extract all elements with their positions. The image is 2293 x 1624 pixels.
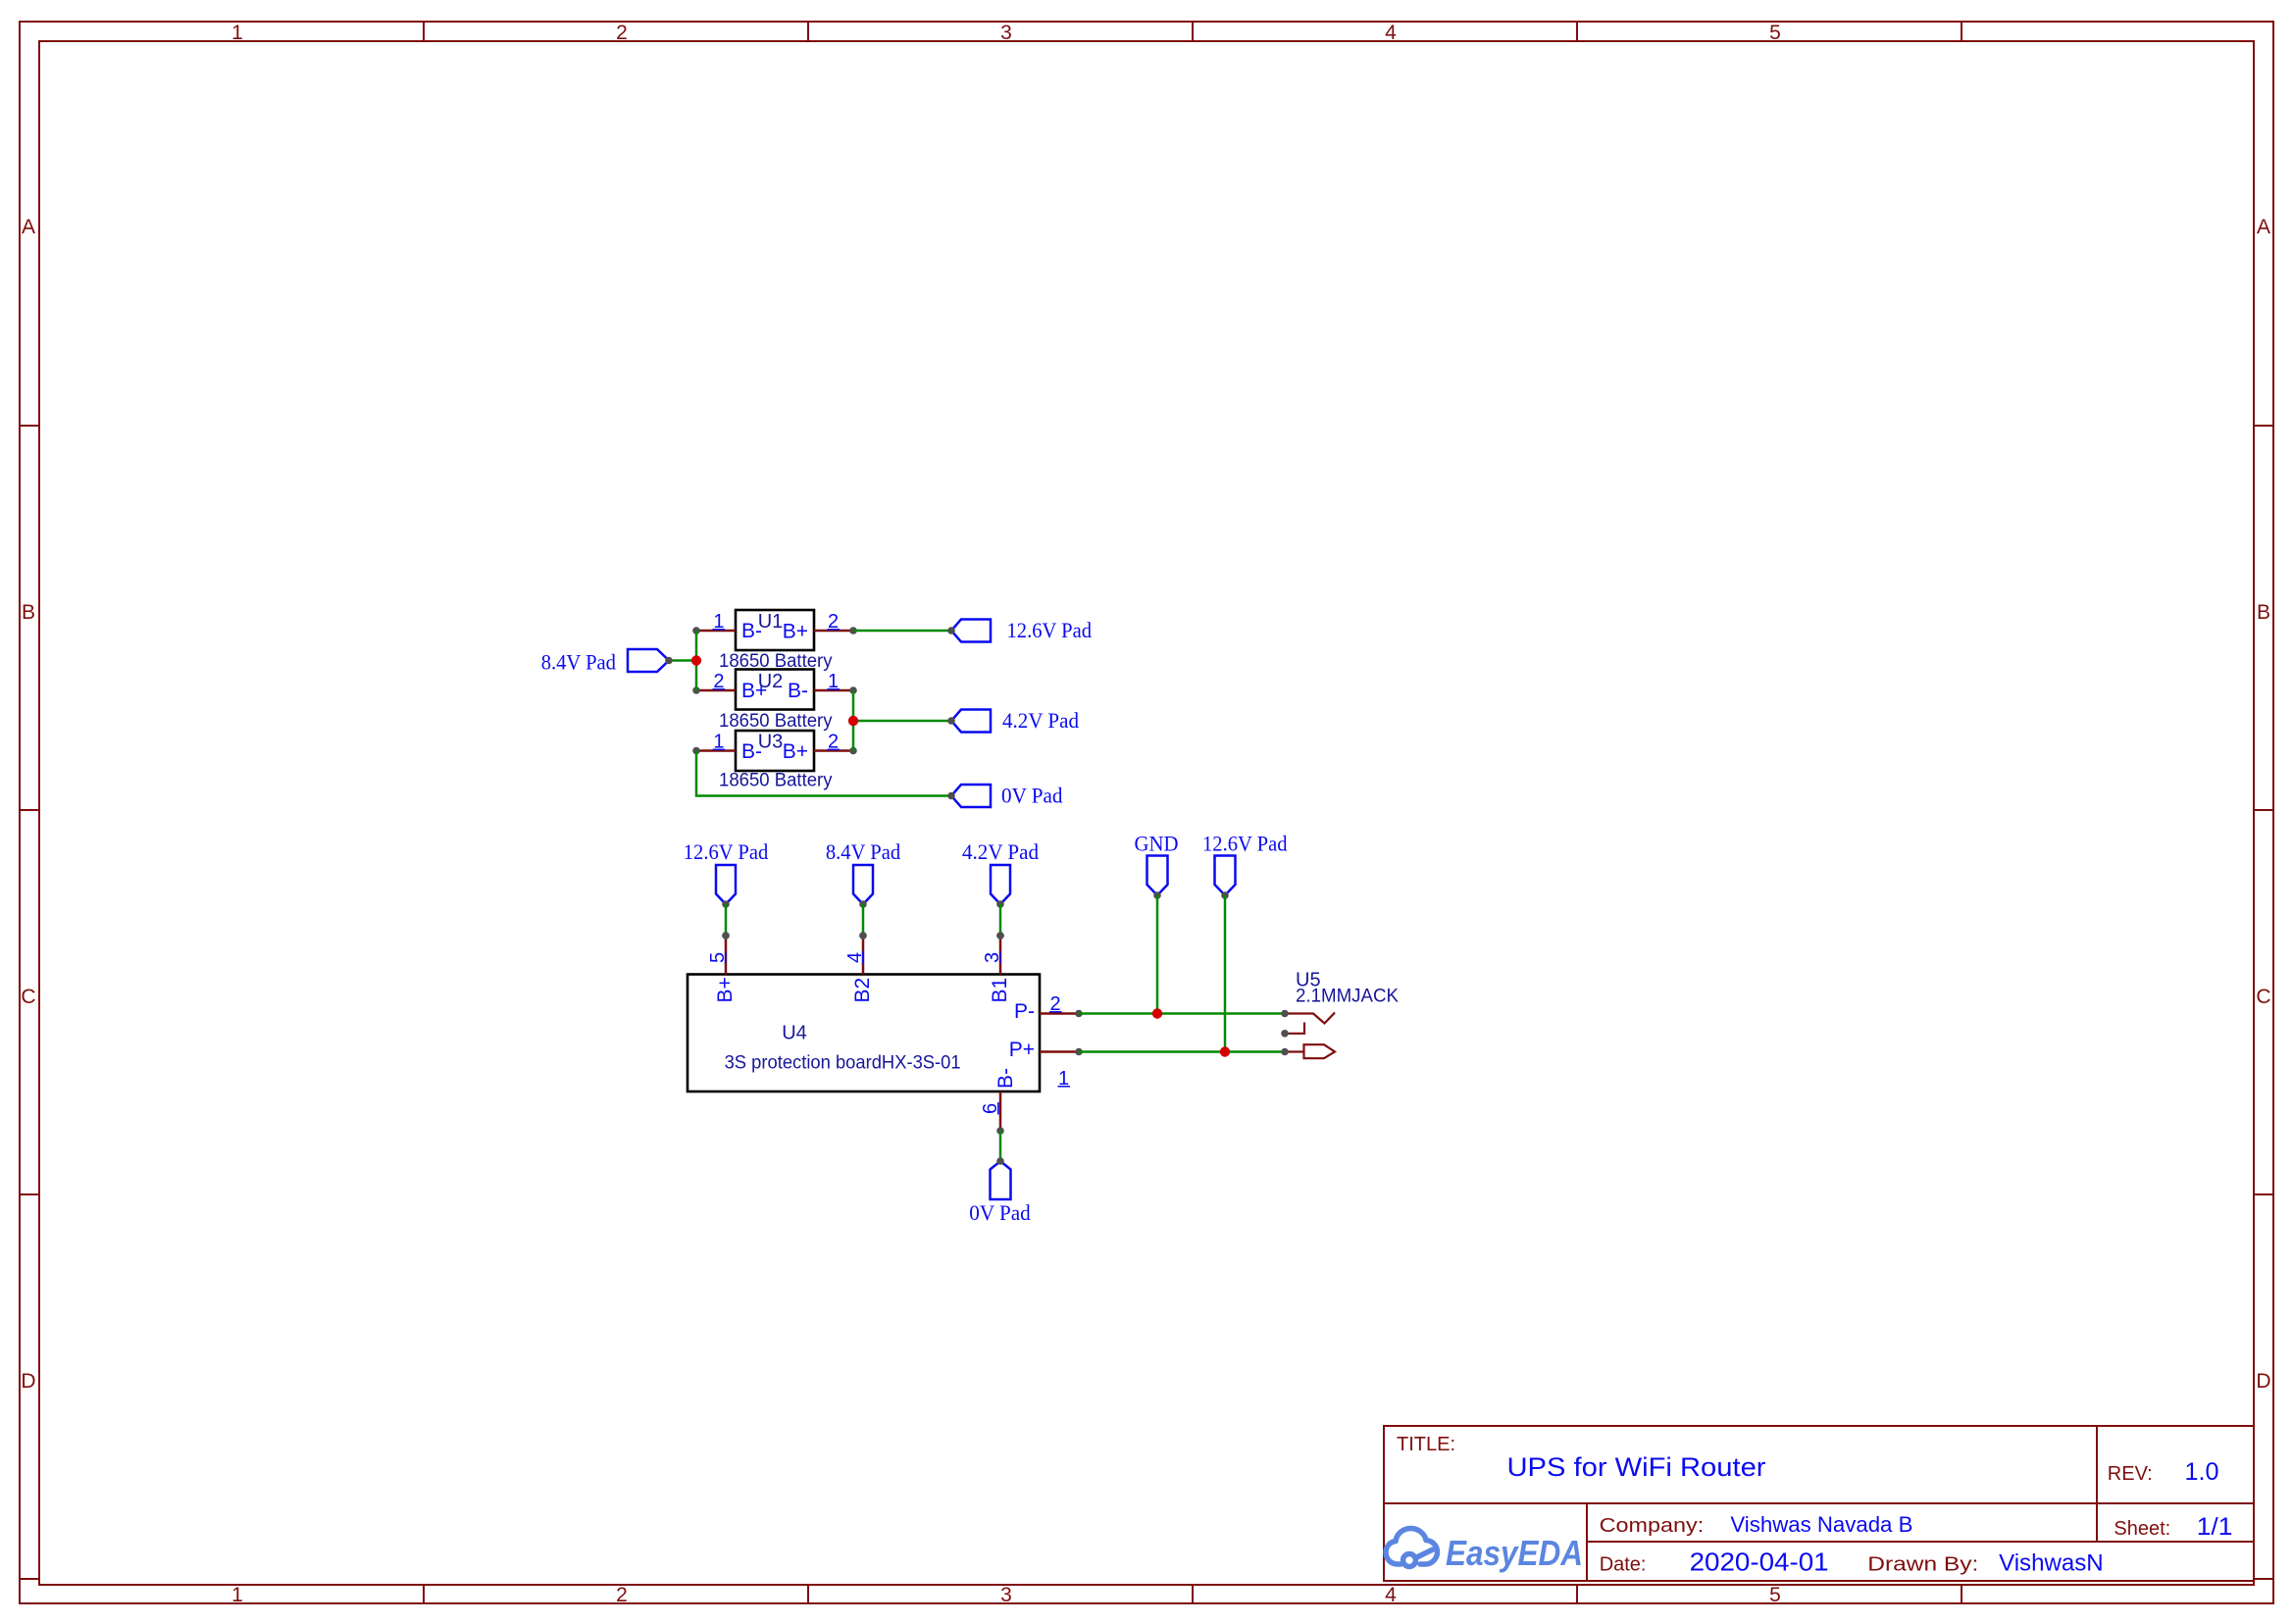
U5 jack switch contact (middle pin) [1285,1023,1304,1034]
U4 pin 4 (B2) [862,936,865,975]
svg-text:B: B [2257,601,2270,624]
frame bottom column tick 2 [807,1585,809,1604]
U4 pin1 terminal dot [1075,1048,1083,1056]
svg-text:2.1MMJACK: 2.1MMJACK [1296,987,1399,1007]
U4 pin 6 (B-) [999,1091,1002,1131]
wire GND flag to P- net [1156,895,1159,1014]
net flag 12.6V Pad right (points down) [1215,856,1236,896]
frame right row tick 3 [2254,1193,2273,1195]
svg-text:REV:: REV: [2108,1463,2153,1485]
U3 pin1 terminal dot [692,747,700,755]
svg-text:B-: B- [741,620,762,642]
U5 jack center pin barrel (pin 1) [1285,1050,1304,1052]
wire 4.2V Pad flag to U4 [999,904,1002,936]
svg-text:Drawn By:: Drawn By: [1867,1554,1978,1576]
net flag 12.6V Pad (points left) [951,620,991,642]
svg-text:B-: B- [994,1068,1017,1089]
U4 pin 1 (P+) [1040,1050,1079,1053]
wire 12.6V Pad flag to U4 [725,904,728,936]
svg-text:B+: B+ [783,621,808,643]
title block divider under title row [1384,1502,2254,1504]
U3 pin 2 [814,749,853,752]
svg-text:0V Pad: 0V Pad [1001,784,1063,808]
svg-text:1: 1 [231,22,243,44]
frame top column tick 3 [1192,22,1194,41]
net flag 4.2V Pad (points left) [951,710,991,733]
svg-text:18650 Battery: 18650 Battery [719,711,833,732]
wire U3.1 down to 0V flag [696,751,951,796]
svg-text:C: C [21,986,35,1008]
svg-text:3: 3 [1000,1584,1012,1606]
title block divider company/date [1587,1541,2254,1543]
frame right row tick 4 [2254,1578,2273,1580]
svg-text:GND: GND [1135,832,1179,856]
net flag 12.6V Pad (points down) at x=740 [716,865,736,904]
frame bottom column tick 5 [1961,1585,1962,1604]
svg-text:12.6V Pad: 12.6V Pad [684,839,769,864]
svg-text:5: 5 [1769,1584,1781,1606]
U1 pin 2 [814,630,853,633]
frame top column tick 1 [423,22,425,41]
U4 pin2 terminal dot [1075,1010,1083,1018]
svg-text:UPS for WiFi Router: UPS for WiFi Router [1507,1452,1766,1482]
wire U2.1 to U3.2 vertical [852,690,855,751]
net flag 8.4V Pad (points down) at x=880 [853,865,873,904]
svg-text:3S protection boardHX-3S-01: 3S protection boardHX-3S-01 [725,1053,961,1074]
title block outline [1384,1426,2254,1581]
U4 pin 3 (B1) [999,936,1002,975]
svg-text:A: A [22,216,35,238]
net flag 8.4V Pad (points right) [628,649,669,672]
svg-text:12.6V Pad: 12.6V Pad [1007,618,1093,642]
svg-text:U4: U4 [782,1023,807,1044]
frame right row tick 1 [2254,425,2273,427]
frame top column tick 4 [1576,22,1578,41]
svg-text:5: 5 [1769,22,1781,44]
svg-text:2020-04-01: 2020-04-01 [1690,1548,1829,1577]
U4 pin6 terminal dot [996,1127,1004,1135]
battery U2 body [736,670,814,710]
svg-text:1: 1 [231,1584,243,1606]
svg-text:B+: B+ [783,740,808,763]
frame top column tick 2 [807,22,809,41]
frame right row tick 2 [2254,809,2273,811]
wire 8.4V Pad flag to U4 [862,904,865,936]
svg-text:4: 4 [1385,22,1397,44]
svg-text:8.4V Pad: 8.4V Pad [826,839,900,864]
wire 12.6V flag to P+ net [1224,895,1227,1052]
U1 pin 1 [696,630,736,633]
wire P+ net to U5 [1079,1050,1285,1053]
svg-text:EasyEDA: EasyEDA [1446,1533,1583,1573]
svg-text:B+: B+ [741,680,767,702]
svg-text:P-: P- [1014,1000,1035,1023]
svg-text:1.0: 1.0 [2185,1458,2219,1486]
wire U4 pin6 to 0V flag [999,1131,1002,1161]
net flag 4.2V Pad (points down) at x=1020 [991,865,1010,904]
svg-text:Vishwas Navada B: Vishwas Navada B [1730,1512,1912,1537]
frame bottom column tick 3 [1192,1585,1194,1604]
IC U4 3S protection board body [688,975,1040,1092]
svg-text:P+: P+ [1009,1039,1035,1061]
frame left row tick 2 [20,809,39,811]
frame bottom column tick 1 [423,1585,425,1604]
U1 pin2 terminal dot [849,627,857,634]
wire P- net to U5 [1079,1012,1285,1015]
frame bottom column tick 4 [1576,1585,1578,1604]
net flag 0V Pad (points up) [991,1161,1011,1199]
U5 pin1 terminal dot [1281,1048,1289,1056]
U1 pin1 terminal dot [692,627,700,634]
svg-text:B-: B- [741,740,762,763]
svg-text:B: B [22,601,35,624]
svg-text:VishwasN: VishwasN [1999,1550,2104,1577]
svg-text:4: 4 [1385,1584,1397,1606]
svg-text:Company:: Company: [1600,1515,1705,1537]
net flag 0V Pad (points left) [951,785,991,807]
wire U1.1 to U2.2 vertical [695,631,698,690]
svg-text:Sheet:: Sheet: [2114,1518,2170,1540]
svg-text:D: D [21,1370,35,1393]
svg-text:12.6V Pad: 12.6V Pad [1202,832,1288,856]
svg-text:B-: B- [788,680,808,702]
U2 pin2 terminal dot [692,686,700,694]
U5 jack sleeve contact (pin 2 side) [1285,1013,1335,1024]
svg-text:1/1: 1/1 [2197,1513,2233,1541]
U4 pin 5 (B+) [725,936,728,975]
svg-text:8.4V Pad: 8.4V Pad [541,650,616,675]
frame left row tick 4 [20,1578,39,1580]
svg-text:C: C [2256,986,2270,1008]
svg-text:D: D [2256,1370,2270,1393]
title block divider left of REV/Sheet [2096,1426,2098,1542]
junction node 8.4V [691,655,701,665]
U3 pin 1 [696,749,736,752]
U5 middle pin terminal dot [1281,1030,1289,1038]
junction node 12.6V / P+ [1220,1046,1230,1056]
U2 pin 1 [814,689,853,692]
frame left row tick 3 [20,1193,39,1195]
svg-text:TITLE:: TITLE: [1397,1434,1455,1455]
frame left row tick 1 [20,425,39,427]
net flag GND (points down) [1147,856,1168,896]
battery U3 body [736,731,814,771]
svg-text:18650 Battery: 18650 Battery [719,771,833,791]
svg-text:Date:: Date: [1600,1554,1647,1576]
svg-text:A: A [2257,216,2270,238]
title block divider right of logo [1586,1503,1588,1581]
junction node GND / P- [1152,1008,1162,1018]
svg-text:B1: B1 [989,978,1011,1003]
svg-text:2: 2 [616,1584,628,1606]
junction node 4.2V [848,716,858,726]
svg-text:B+: B+ [714,977,737,1002]
U5 pin2 terminal dot [1281,1010,1289,1018]
svg-text:4.2V Pad: 4.2V Pad [962,839,1039,864]
U3 pin2 terminal dot [849,747,857,755]
U2 pin1 terminal dot [849,686,857,694]
battery U1 body [736,610,814,650]
svg-text:2: 2 [616,22,628,44]
U4 pin 2 (P-) [1040,1012,1079,1015]
svg-text:4.2V Pad: 4.2V Pad [1002,708,1079,733]
svg-text:0V Pad: 0V Pad [969,1200,1031,1225]
wire junction to 4.2V flag [853,720,951,723]
EasyEDA logo cloud icon [1386,1529,1438,1567]
svg-text:3: 3 [1000,22,1012,44]
U2 pin 2 [696,689,736,692]
wire 8.4V flag to junction [669,659,696,662]
svg-text:B2: B2 [851,978,874,1003]
frame top column tick 5 [1961,22,1962,41]
wire U1.2 to 12.6V flag [853,630,951,633]
